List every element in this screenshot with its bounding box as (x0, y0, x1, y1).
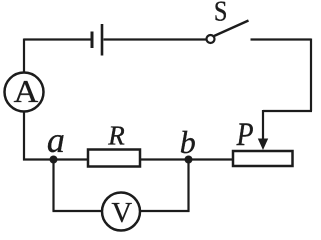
battery B1 (92, 24, 102, 56)
potentiometer P (233, 151, 293, 166)
svg-text:P: P (236, 116, 254, 153)
wire right vertical (310, 39, 312, 112)
svg-text:b: b (180, 124, 196, 160)
wire bottom-left horizontal to voltmeter (53, 210, 103, 212)
wire main horizontal right (resistor to potentiometer) (140, 158, 233, 160)
wire switch to top-right corner (251, 38, 312, 40)
svg-text:V: V (112, 198, 133, 229)
wire left vertical (corner to ammeter) (23, 39, 25, 73)
wire right step horizontal (263, 110, 312, 112)
wire ammeter to main line (23, 112, 25, 161)
voltmeter U V (102, 193, 140, 231)
wire b up (187, 160, 189, 213)
svg-text:A: A (14, 75, 39, 110)
node a (junction dot) (50, 156, 58, 164)
resistor R (88, 150, 140, 167)
wire main horizontal left (corner to resistor) (23, 158, 88, 160)
wire voltmeter to b bottom (140, 210, 190, 212)
wire a down (52, 160, 54, 212)
ammeter U A (5, 73, 44, 112)
wire battery to switch (104, 38, 207, 40)
switch S (207, 21, 249, 44)
wire top-left horizontal (corner to battery) (24, 38, 91, 40)
svg-text:S: S (214, 0, 228, 27)
node b (junction dot) (185, 156, 193, 164)
svg-text:a: a (47, 120, 65, 160)
svg-text:R: R (107, 120, 125, 150)
wire arrow stem vertical (262, 110, 264, 139)
potentiometer wiper arrowhead (258, 139, 268, 151)
